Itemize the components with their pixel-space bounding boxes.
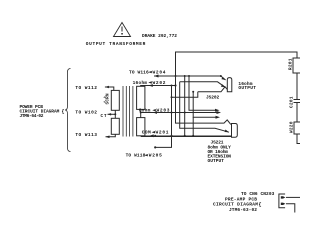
arrow for label W202	[148, 81, 152, 83]
svg-text:R201: R201	[289, 58, 294, 70]
svg-text:{: {	[259, 202, 262, 208]
svg-text:JTM6-63-02: JTM6-63-02	[229, 207, 257, 213]
svg-text:CIRCUIT DIAGRAM: CIRCUIT DIAGRAM	[213, 202, 258, 208]
label 8ohm W203	[139, 108, 170, 114]
wire switch drop 3	[180, 82, 229, 132]
svg-text:TO W112: TO W112	[75, 85, 97, 91]
label TO W116 W204	[129, 70, 166, 76]
label 16ohm OUTPUT	[238, 81, 256, 91]
capacitor C201	[290, 96, 301, 108]
svg-text:TO CN6 CN203: TO CN6 CN203	[241, 191, 275, 197]
arrow for label W203	[152, 109, 156, 111]
svg-text:W201: W201	[156, 130, 169, 136]
svg-text:COM: COM	[142, 130, 151, 136]
transformer primary winding upper	[111, 90, 119, 110]
wire W112 to primary	[105, 86, 114, 91]
svg-text:W220: W220	[290, 121, 295, 133]
svg-text:JTM6-64-02: JTM6-64-02	[20, 113, 44, 119]
svg-text:OUTPUT TRANSFORMER: OUTPUT TRANSFORMER	[86, 41, 146, 47]
component W220	[290, 121, 302, 134]
label SCRN	[104, 93, 111, 105]
wire centre tap	[108, 110, 117, 118]
jack socket JS221	[232, 124, 238, 138]
resistor R201	[289, 58, 302, 73]
label 8ohm ONLY	[208, 144, 232, 164]
wire W113	[106, 134, 116, 138]
svg-text:PRE-AMP PCB: PRE-AMP PCB	[225, 196, 257, 202]
label POWER PCB block	[20, 104, 65, 119]
wire top bus	[176, 52, 298, 76]
svg-text:OUTPUT: OUTPUT	[238, 85, 256, 91]
wire bus top vertical to JS221 tip select	[175, 76, 231, 124]
wire JS202 tip to JS221 contact	[193, 92, 220, 136]
svg-text:<: <	[104, 96, 106, 101]
svg-text:JS202: JS202	[206, 94, 219, 100]
svg-text:TO W118: TO W118	[126, 153, 146, 159]
svg-text:<: <	[104, 100, 106, 105]
arrow for label W201	[152, 131, 156, 133]
svg-text:TO W113: TO W113	[75, 132, 97, 138]
svg-text:DRAKE 292,772: DRAKE 292,772	[142, 33, 177, 39]
transformer secondary winding lower	[137, 118, 145, 136]
wire W205 from COM	[154, 136, 171, 148]
wire 8 ohm tap W203 to JS221	[140, 109, 221, 117]
wire JS202 switch contact	[180, 82, 226, 88]
wire bus 16ohm vertical	[171, 86, 173, 137]
svg-text:W204: W204	[153, 70, 166, 76]
wire CN203 pin2	[286, 204, 295, 213]
svg-text:SCRN: SCRN	[107, 93, 111, 104]
wire 16 ohm tap W202	[141, 84, 177, 87]
wire W204 select to JS202	[154, 75, 226, 81]
brace left group	[65, 69, 71, 152]
svg-text:OUTPUT: OUTPUT	[208, 158, 225, 164]
connector CN203	[279, 194, 286, 208]
label COM W201	[142, 130, 169, 136]
transformer core	[123, 86, 133, 137]
svg-text:TO W102: TO W102	[75, 110, 97, 116]
label TO W118 W205	[126, 153, 162, 159]
wire CN203 pin1	[286, 196, 300, 198]
wire	[297, 134, 301, 144]
wire	[296, 103, 298, 123]
svg-text:CT: CT	[101, 115, 107, 119]
label PRE-AMP PCB block	[213, 191, 275, 213]
wire switch drop	[184, 76, 186, 136]
svg-text:TO W116: TO W116	[129, 70, 149, 76]
wire COM tap W201	[141, 134, 232, 137]
arrow for label W204	[148, 71, 152, 73]
arrow for label W205	[144, 154, 148, 156]
transformer primary winding lower	[111, 118, 119, 134]
wire	[296, 73, 298, 100]
label 16ohm W202	[133, 80, 166, 86]
svg-text:{: {	[62, 109, 65, 115]
svg-text:W205: W205	[149, 153, 162, 159]
warning triangle	[114, 23, 131, 37]
wire switch drop 2	[189, 76, 220, 112]
svg-text:C201: C201	[290, 96, 295, 108]
transformer secondary winding upper	[137, 86, 145, 109]
jack socket JS202	[171, 78, 232, 99]
